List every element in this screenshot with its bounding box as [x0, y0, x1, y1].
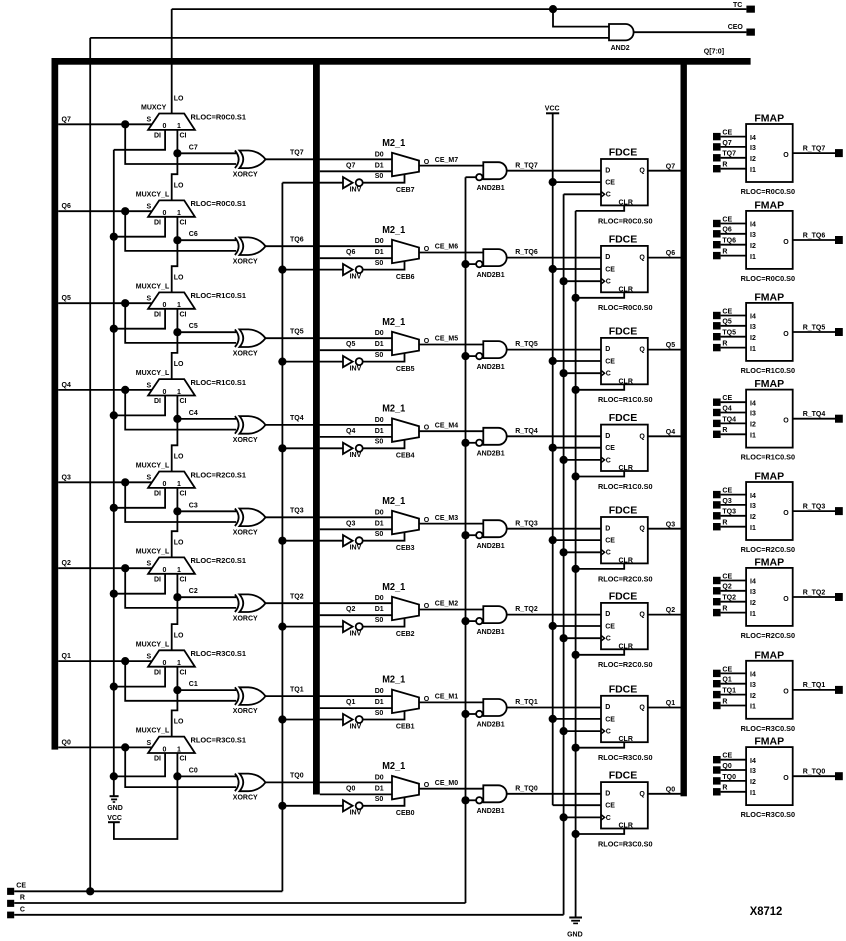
svg-text:D0: D0	[375, 238, 384, 245]
junction CLR rail	[572, 472, 580, 480]
and-gate AND2B1 bit 4	[466, 428, 507, 458]
wire CI pin to C5 node	[176, 309, 178, 332]
svg-text:RLOC=R2C0.S0: RLOC=R2C0.S0	[741, 547, 796, 554]
svg-text:D: D	[605, 433, 610, 440]
svg-text:Q4: Q4	[666, 429, 675, 436]
terminal CEO	[728, 24, 755, 36]
wire CLR pin to rail bit 4	[576, 471, 625, 477]
svg-text:Q3: Q3	[666, 521, 675, 528]
svg-text:CE_M2: CE_M2	[435, 601, 458, 608]
wire LO carry from C3 junction above	[172, 419, 178, 472]
node C0	[173, 767, 198, 780]
svg-text:Q: Q	[639, 347, 645, 354]
node C1	[173, 681, 198, 694]
svg-text:CI: CI	[180, 219, 187, 226]
wire CEB4 to S0	[363, 440, 415, 460]
svg-text:0: 0	[162, 660, 166, 667]
svg-text:FMAP: FMAP	[754, 736, 784, 748]
wire C4 to XORCY input	[177, 418, 236, 420]
svg-text:I2: I2	[750, 335, 756, 342]
terminal C	[7, 906, 25, 918]
svg-text:1: 1	[177, 481, 181, 488]
terminal CE	[7, 883, 26, 895]
svg-text:I4: I4	[750, 672, 756, 679]
svg-text:CE_M7: CE_M7	[435, 157, 458, 164]
svg-text:I1: I1	[750, 254, 756, 261]
junction DI rail	[110, 325, 118, 333]
svg-text:R_TQ6: R_TQ6	[803, 232, 826, 239]
svg-text:1: 1	[177, 302, 181, 309]
svg-text:I4: I4	[750, 135, 756, 142]
svg-text:RLOC=R0C0.S0: RLOC=R0C0.S0	[741, 276, 796, 283]
wire CI pin to C4 node	[176, 396, 178, 419]
svg-text:TQ3: TQ3	[290, 508, 304, 515]
svg-text:Q7: Q7	[62, 116, 71, 123]
svg-text:Q2: Q2	[346, 606, 355, 613]
svg-text:INV: INV	[350, 631, 362, 638]
svg-text:I1: I1	[750, 611, 756, 618]
svg-text:CE_M1: CE_M1	[435, 694, 458, 701]
svg-text:GND: GND	[567, 931, 583, 938]
power VCC (left)	[107, 815, 122, 822]
junction Q0	[121, 743, 129, 751]
wire CE_M0	[419, 780, 483, 789]
wire Q1 from bus	[58, 653, 152, 661]
svg-text:0: 0	[162, 302, 166, 309]
junction R rail	[461, 710, 469, 718]
svg-text:CE_M0: CE_M0	[435, 780, 458, 787]
svg-text:CE: CE	[722, 308, 732, 315]
svg-text:I3: I3	[750, 232, 756, 239]
svg-text:O: O	[783, 331, 789, 338]
junction Q7	[121, 120, 129, 128]
svg-text:1: 1	[177, 123, 181, 130]
mux-carry MUXCY bit 7	[141, 105, 246, 140]
wire CI pin to C1 node	[176, 667, 178, 690]
svg-text:CLR: CLR	[619, 199, 633, 206]
wire LO carry from C2 junction above	[172, 511, 178, 557]
svg-text:M2_1: M2_1	[382, 138, 406, 149]
svg-text:RLOC=R2C0.S0: RLOC=R2C0.S0	[598, 662, 653, 669]
svg-text:INV: INV	[350, 452, 362, 459]
junction CLR rail	[572, 830, 580, 838]
and-gate AND2B1 bit 5	[466, 341, 507, 371]
wire Q7 to D1	[320, 162, 392, 171]
fmap FMAP bit 6	[713, 200, 843, 283]
wire Q1 to XORCY input	[125, 661, 236, 701]
svg-text:AND2B1: AND2B1	[477, 808, 505, 815]
svg-text:C5: C5	[189, 323, 198, 330]
mux M2_1 bit 5	[375, 317, 430, 359]
svg-text:D1: D1	[375, 520, 384, 527]
wire DI bit 3 to GND rail	[114, 488, 165, 508]
svg-text:CE: CE	[605, 538, 615, 545]
svg-text:TQ6: TQ6	[722, 238, 736, 245]
svg-text:R: R	[722, 698, 727, 705]
wire Q7 to XORCY input	[125, 124, 236, 164]
junction VCC rail	[549, 178, 557, 186]
svg-text:C4: C4	[189, 410, 198, 417]
svg-text:D: D	[605, 254, 610, 261]
mux M2_1 bit 0	[375, 761, 430, 803]
svg-text:CEB3: CEB3	[396, 545, 415, 552]
xor-gate XORCY bit 0	[233, 774, 266, 802]
svg-text:I3: I3	[750, 324, 756, 331]
wire CLR pin to rail bit 3	[576, 563, 625, 569]
xor-gate XORCY bit 7	[233, 151, 266, 179]
wire C rail to clock pin bit 1	[564, 730, 601, 732]
junction Q5	[121, 299, 129, 307]
svg-text:RLOC=R1C0.S0: RLOC=R1C0.S0	[598, 397, 653, 404]
junction DI rail	[110, 233, 118, 241]
wire VCC rail to CE pin bit 5	[553, 360, 601, 362]
svg-text:M2_1: M2_1	[382, 317, 406, 328]
wire Q1 to D1	[320, 699, 392, 708]
svg-text:R_TQ7: R_TQ7	[803, 145, 826, 152]
fmap FMAP bit 4	[713, 378, 843, 461]
svg-text:C: C	[606, 192, 611, 199]
svg-text:Q5: Q5	[666, 342, 675, 349]
wire DI bit 6 to GND rail	[114, 217, 165, 237]
svg-text:I2: I2	[750, 600, 756, 607]
wire CLR/GND rail	[575, 211, 577, 917]
wire C7 to XORCY input	[177, 152, 236, 154]
svg-text:TQ2: TQ2	[290, 594, 304, 601]
svg-text:Q6: Q6	[722, 227, 731, 234]
inverter INV bit 4	[282, 443, 362, 460]
wire VCC rail to CE pin bit 3	[553, 539, 601, 541]
svg-text:DI: DI	[154, 398, 161, 405]
svg-text:MUXCY_L: MUXCY_L	[136, 191, 170, 198]
wire TQ2	[266, 594, 393, 604]
svg-text:M2_1: M2_1	[382, 582, 406, 593]
junction R rail	[461, 531, 469, 539]
svg-text:RLOC=R3C0.S0: RLOC=R3C0.S0	[598, 841, 653, 848]
svg-text:0: 0	[162, 567, 166, 574]
svg-text:R_TQ5: R_TQ5	[515, 341, 538, 348]
wire C5 to XORCY input	[177, 331, 236, 333]
junction R rail	[461, 352, 469, 360]
svg-text:RLOC=R3C0.S0: RLOC=R3C0.S0	[598, 755, 653, 762]
svg-text:D0: D0	[375, 509, 384, 516]
wire LO carry from C1 junction above	[172, 597, 178, 650]
svg-text:C: C	[606, 815, 611, 822]
svg-text:R: R	[722, 785, 727, 792]
wire TQ6	[266, 237, 393, 247]
wire CLR pin to rail bit 6	[576, 292, 625, 298]
svg-text:0: 0	[162, 746, 166, 753]
wire C rail to clock pin bit 7	[564, 193, 601, 195]
svg-text:RLOC=R1C0.S0: RLOC=R1C0.S0	[598, 484, 653, 491]
svg-text:Q5: Q5	[722, 319, 731, 326]
svg-text:DI: DI	[154, 311, 161, 318]
wire Q5 output to bus	[648, 342, 681, 349]
wire C0 to XORCY input	[177, 775, 236, 777]
wire Q5 to D1	[320, 341, 392, 350]
svg-text:RLOC=R0C0.S1: RLOC=R0C0.S1	[191, 201, 247, 208]
svg-text:O: O	[783, 418, 789, 425]
svg-text:AND2B1: AND2B1	[477, 722, 505, 729]
wire DI bit 5 to GND rail	[114, 309, 165, 329]
svg-text:Q: Q	[639, 433, 645, 440]
and-gate AND2B1 bit 3	[466, 520, 507, 550]
svg-text:AND2B1: AND2B1	[477, 185, 505, 192]
wire C rail to clock pin bit 0	[564, 816, 601, 818]
svg-text:0: 0	[162, 210, 166, 217]
svg-text:Q0: Q0	[666, 786, 675, 793]
junction CE rail / INV	[278, 537, 286, 545]
wire TQ4	[266, 415, 393, 425]
mux-carry MUXCY_L bit 3	[136, 463, 246, 498]
junction C rail	[560, 727, 568, 735]
svg-text:Q1: Q1	[62, 653, 71, 660]
svg-text:XORCY: XORCY	[233, 171, 258, 178]
svg-text:AND2B1: AND2B1	[477, 543, 505, 550]
svg-text:FDCE: FDCE	[609, 683, 638, 695]
wire R rail	[465, 177, 467, 903]
wire R_TQ5	[507, 341, 601, 349]
svg-text:XORCY: XORCY	[233, 350, 258, 357]
bus bar middle TQ	[313, 58, 320, 795]
svg-text:I3: I3	[750, 768, 756, 775]
mux M2_1 bit 2	[375, 582, 430, 624]
wire R_TQ0	[507, 785, 601, 793]
svg-text:S0: S0	[375, 352, 384, 359]
flip-flop FDCE bit 5	[598, 326, 653, 405]
svg-text:TQ7: TQ7	[722, 151, 736, 158]
svg-text:CLR: CLR	[619, 286, 633, 293]
svg-text:Q4: Q4	[722, 405, 731, 412]
svg-text:MUXCY_L: MUXCY_L	[136, 548, 170, 555]
wire Q1 output to bus	[648, 700, 681, 707]
svg-text:I3: I3	[750, 145, 756, 152]
mux-carry MUXCY_L bit 5	[136, 283, 246, 318]
svg-text:RLOC=R3C0.S0: RLOC=R3C0.S0	[741, 726, 796, 733]
wire CLR pin to rail bit 7	[576, 205, 625, 211]
svg-text:D: D	[605, 525, 610, 532]
svg-text:R_TQ5: R_TQ5	[803, 324, 826, 331]
svg-text:D1: D1	[375, 249, 384, 256]
svg-text:D: D	[605, 167, 610, 174]
inverter INV bit 6	[282, 264, 362, 281]
wire VCC rail	[552, 114, 554, 805]
fmap FMAP bit 1	[713, 649, 843, 732]
svg-text:Q2: Q2	[62, 560, 71, 567]
wire CEB1 to S0	[363, 711, 415, 731]
svg-text:FMAP: FMAP	[754, 200, 784, 212]
svg-text:I3: I3	[750, 682, 756, 689]
svg-text:Q: Q	[639, 791, 645, 798]
wire C rail to clock pin bit 5	[564, 372, 601, 374]
svg-text:M2_1: M2_1	[382, 761, 406, 772]
wire CEB5 to S0	[363, 353, 415, 373]
wire CEB6 to S0	[363, 261, 415, 281]
svg-text:CI: CI	[180, 491, 187, 498]
wire CE_M7	[419, 157, 483, 166]
junction DI rail	[110, 772, 118, 780]
mux M2_1 bit 7	[375, 138, 430, 180]
svg-text:1: 1	[177, 660, 181, 667]
svg-text:CI: CI	[180, 669, 187, 676]
svg-text:RLOC=R1C0.S1: RLOC=R1C0.S1	[191, 293, 247, 300]
svg-text:R: R	[722, 520, 727, 527]
junction CE rail / INV	[278, 802, 286, 810]
svg-text:AND2: AND2	[611, 45, 630, 52]
svg-text:FMAP: FMAP	[754, 113, 784, 125]
wire CI pin to C7 node	[176, 130, 178, 153]
wire VCC rail to CE pin bit 0	[553, 804, 601, 806]
junction C rail	[560, 548, 568, 556]
svg-text:XORCY: XORCY	[233, 258, 258, 265]
flip-flop FDCE bit 2	[598, 591, 653, 670]
svg-text:Q1: Q1	[666, 700, 675, 707]
svg-text:FDCE: FDCE	[609, 326, 638, 338]
inverter INV bit 0	[282, 800, 362, 817]
wire TQ1	[266, 686, 393, 696]
svg-text:D0: D0	[375, 330, 384, 337]
svg-text:I1: I1	[750, 167, 756, 174]
svg-text:CE: CE	[722, 753, 732, 760]
svg-text:RLOC=R2C0.S1: RLOC=R2C0.S1	[191, 558, 247, 565]
wire TQ5	[266, 329, 393, 339]
svg-text:CE: CE	[605, 180, 615, 187]
svg-text:Q[7:0]: Q[7:0]	[704, 48, 724, 55]
inverter INV bit 7	[282, 177, 362, 194]
wire R_TQ2	[507, 606, 601, 614]
svg-text:CEB0: CEB0	[396, 810, 415, 817]
wire CLR pin to rail bit 0	[576, 829, 625, 835]
junction CLR rail	[572, 744, 580, 752]
svg-text:C: C	[20, 906, 25, 913]
wire Q0 to D1	[320, 785, 392, 794]
junction CLR rail	[572, 565, 580, 573]
svg-text:0: 0	[162, 481, 166, 488]
wire CE rail to INVs	[281, 183, 283, 892]
mux M2_1 bit 4	[375, 404, 430, 446]
svg-text:O: O	[783, 775, 789, 782]
junction Q3	[121, 478, 129, 486]
wire DI bit 7 to GND rail	[114, 130, 165, 150]
svg-text:CE: CE	[16, 883, 26, 890]
svg-text:C: C	[606, 550, 611, 557]
svg-text:VCC: VCC	[107, 815, 122, 822]
svg-text:TQ0: TQ0	[290, 773, 304, 780]
svg-text:AND2B1: AND2B1	[477, 629, 505, 636]
junction R rail	[461, 617, 469, 625]
junction VCC rail	[549, 357, 557, 365]
svg-text:D: D	[605, 611, 610, 618]
node C2	[173, 588, 198, 601]
svg-text:RLOC=R0C0.S0: RLOC=R0C0.S0	[741, 189, 796, 196]
svg-text:D1: D1	[375, 785, 384, 792]
svg-text:CE: CE	[605, 624, 615, 631]
svg-text:Q5: Q5	[346, 341, 355, 348]
terminal R	[7, 895, 25, 907]
svg-text:Q5: Q5	[62, 295, 71, 302]
svg-text:CEB2: CEB2	[396, 631, 415, 638]
inverter INV bit 1	[282, 714, 362, 731]
svg-text:R: R	[722, 427, 727, 434]
svg-text:Q1: Q1	[346, 699, 355, 706]
svg-text:S: S	[147, 296, 152, 303]
junction C rail	[560, 813, 568, 821]
svg-text:C: C	[606, 371, 611, 378]
wire CLR pin to rail bit 2	[576, 649, 625, 655]
wire R_TQ3	[507, 520, 601, 528]
mux-carry MUXCY_L bit 2	[136, 548, 246, 583]
svg-text:VCC: VCC	[545, 105, 560, 112]
and-gate AND2B1 bit 7	[466, 162, 507, 192]
svg-text:DI: DI	[154, 133, 161, 140]
svg-text:S: S	[147, 561, 152, 568]
junction CLR rail	[572, 294, 580, 302]
svg-text:RLOC=R3C0.S1: RLOC=R3C0.S1	[191, 651, 247, 658]
svg-text:Q4: Q4	[346, 428, 355, 435]
svg-text:AND2B1: AND2B1	[477, 364, 505, 371]
wire TC	[172, 9, 747, 113]
svg-text:R_TQ2: R_TQ2	[515, 606, 538, 613]
fmap FMAP bit 0	[713, 736, 843, 819]
junction CLR rail	[572, 386, 580, 394]
junction CE riser	[86, 887, 94, 895]
svg-text:I1: I1	[750, 433, 756, 440]
svg-text:TQ4: TQ4	[722, 416, 736, 423]
svg-text:CI: CI	[180, 398, 187, 405]
fmap FMAP bit 7	[713, 113, 843, 196]
svg-text:Q3: Q3	[62, 474, 71, 481]
svg-text:CE: CE	[605, 267, 615, 274]
svg-text:LO: LO	[174, 96, 184, 103]
svg-text:I4: I4	[750, 400, 756, 407]
wire CE_M5	[419, 336, 483, 345]
svg-text:I1: I1	[750, 346, 756, 353]
wire C1 to XORCY input	[177, 689, 236, 691]
svg-text:LO: LO	[174, 454, 184, 461]
svg-text:I1: I1	[750, 525, 756, 532]
svg-text:Q3: Q3	[346, 520, 355, 527]
svg-text:S: S	[147, 740, 152, 747]
flip-flop FDCE bit 6	[598, 234, 653, 313]
junction C rail	[560, 369, 568, 377]
svg-text:RLOC=R3C0.S0: RLOC=R3C0.S0	[741, 812, 796, 819]
svg-text:MUXCY_L: MUXCY_L	[136, 463, 170, 470]
svg-text:D1: D1	[375, 341, 384, 348]
svg-text:XORCY: XORCY	[233, 795, 258, 802]
svg-text:Q7: Q7	[722, 140, 731, 147]
svg-text:TQ1: TQ1	[290, 686, 304, 693]
svg-text:INV: INV	[350, 366, 362, 373]
wire VCC rail to CE pin bit 2	[553, 625, 601, 627]
svg-text:1: 1	[177, 746, 181, 753]
svg-text:FMAP: FMAP	[754, 557, 784, 569]
svg-text:Q3: Q3	[722, 498, 731, 505]
junction DI rail	[110, 411, 118, 419]
svg-text:TQ4: TQ4	[290, 415, 304, 422]
wire Q2 output to bus	[648, 607, 681, 614]
svg-text:1: 1	[177, 389, 181, 396]
svg-text:C3: C3	[189, 502, 198, 509]
svg-text:Q6: Q6	[346, 249, 355, 256]
svg-text:R_TQ4: R_TQ4	[515, 428, 538, 435]
svg-text:LO: LO	[174, 361, 184, 368]
svg-text:FMAP: FMAP	[754, 378, 784, 390]
wire VCC rail to CE pin bit 6	[553, 268, 601, 270]
svg-text:Q: Q	[639, 612, 645, 619]
wire Q5 to XORCY input	[125, 303, 236, 343]
mux M2_1 bit 6	[375, 225, 430, 267]
svg-text:LO: LO	[174, 275, 184, 282]
svg-text:S: S	[147, 382, 152, 389]
